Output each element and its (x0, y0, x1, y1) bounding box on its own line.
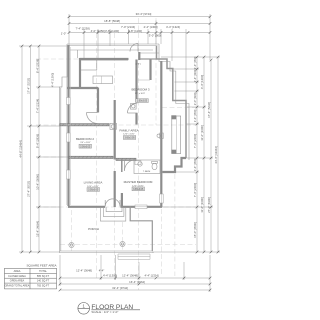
svg-text:3'-8" [1100]: 3'-8" [1100] (105, 29, 119, 33)
svg-text:1'-4" [400]: 1'-4" [400] (193, 69, 197, 82)
svg-text:7'-4" [2134]: 7'-4" [2134] (35, 99, 39, 113)
svg-text:10'-4" [3096]: 10'-4" [3096] (35, 174, 39, 190)
svg-text:7'-4" [2200]: 7'-4" [2200] (193, 134, 197, 148)
svg-text:17'-4" [5232]: 17'-4" [5232] (27, 78, 31, 94)
svg-text:12'0" x 10'0": 12'0" x 10'0" (123, 134, 135, 136)
svg-text:4'-4" [1300]: 4'-4" [1300] (51, 73, 55, 87)
svg-text:32'-4" [9744]: 32'-4" [9744] (112, 286, 128, 290)
svg-text:18'-8" [5648]: 18'-8" [5648] (104, 19, 120, 23)
svg-text:44'-8" [13464]: 44'-8" [13464] (19, 140, 23, 157)
svg-text:3'-0" [900]: 3'-0" [900] (149, 34, 162, 38)
svg-text:11'-6" [3300]: 11'-6" [3300] (200, 125, 204, 141)
svg-text:OPEN AREA: OPEN AREA (10, 280, 25, 283)
svg-text:9'0" x 10'0": 9'0" x 10'0" (80, 142, 91, 144)
svg-text:1'-6" [450]: 1'-6" [450] (193, 109, 197, 122)
svg-text:15'-0" [4500]: 15'-0" [4500] (193, 222, 197, 238)
svg-text:4'-4" [1300]: 4'-4" [1300] (200, 75, 204, 89)
svg-text:30'-4" [9744]: 30'-4" [9744] (136, 12, 152, 16)
svg-text:AREA: AREA (14, 270, 21, 273)
svg-text:27'-0" [8100]: 27'-0" [8100] (207, 197, 211, 213)
svg-text:4'-4" [1324]: 4'-4" [1324] (144, 274, 158, 278)
svg-text:BEDROOM 3: BEDROOM 3 (131, 87, 149, 91)
svg-text:1'-6" [450]: 1'-6" [450] (193, 56, 197, 69)
svg-text:(2'6"): (2'6") (136, 63, 141, 65)
svg-text:9'-4" [2836]: 9'-4" [2836] (35, 134, 39, 148)
svg-text:3.00x3.05: 3.00x3.05 (137, 101, 148, 103)
svg-text:17'-4" [5232]: 17'-4" [5232] (207, 102, 211, 118)
svg-text:9'0" x 10'0": 9'0" x 10'0" (135, 93, 146, 95)
svg-text:27'-4" [8232]: 27'-4" [8232] (27, 181, 31, 197)
svg-text:SCALE : 1/4" = 1'-0": SCALE : 1/4" = 1'-0" (91, 310, 118, 314)
svg-text:12'-4" [3648]: 12'-4" [3648] (76, 269, 92, 273)
svg-text:140 SQ.FT: 140 SQ.FT (37, 280, 50, 283)
svg-text:44'-4" [13364]: 44'-4" [13364] (214, 146, 218, 163)
svg-text:4'-0" [1350]: 4'-0" [1350] (91, 29, 105, 33)
svg-text:4'-4" [1324]: 4'-4" [1324] (166, 25, 180, 29)
svg-text:1'-6" [450]: 1'-6" [450] (193, 158, 197, 171)
svg-text:T. BATH: T. BATH (143, 170, 151, 173)
svg-text:SQUARE FEET AREA: SQUARE FEET AREA (27, 264, 57, 268)
svg-text:8'-4" [2538]: 8'-4" [2538] (35, 59, 39, 73)
svg-text:4'-4": 4'-4" (99, 269, 105, 273)
svg-text:PORCH: PORCH (88, 227, 99, 231)
svg-text:CLOSED AREA: CLOSED AREA (8, 275, 26, 278)
svg-text:3.65x3.05: 3.65x3.05 (124, 138, 135, 140)
svg-text:12'-4" [3648]: 12'-4" [3648] (122, 274, 138, 278)
svg-text:3.65x3.05: 3.65x3.05 (133, 189, 144, 191)
svg-text:15'-4" [4664]: 15'-4" [4664] (35, 221, 39, 237)
svg-text:4'-4" [1300]: 4'-4" [1300] (143, 25, 157, 29)
svg-text:LIVING AREA: LIVING AREA (84, 181, 103, 185)
svg-text:765 SQ.FT: 765 SQ.FT (37, 285, 50, 288)
svg-text:585 SQ.FT: 585 SQ.FT (37, 275, 50, 278)
svg-text:TOTAL: TOTAL (39, 270, 47, 273)
svg-text:7'-4" [2200]: 7'-4" [2200] (193, 183, 197, 197)
svg-text:4'-4" [1300]: 4'-4" [1300] (103, 274, 117, 278)
svg-text:3.00x3.05: 3.00x3.05 (80, 146, 91, 148)
svg-text:FAMILY AREA: FAMILY AREA (119, 128, 138, 132)
svg-text:16'-4" [4964]: 16'-4" [4964] (129, 280, 145, 284)
svg-text:11'-6" [3300]: 11'-6" [3300] (200, 197, 204, 213)
svg-text:2'-0" [600]: 2'-0" [600] (193, 92, 197, 105)
svg-text:3'-8" [1100]: 3'-8" [1100] (128, 29, 142, 33)
svg-text:BEDROOM 2: BEDROOM 2 (76, 137, 94, 141)
svg-text:MASTER BEDROOM: MASTER BEDROOM (124, 180, 153, 184)
svg-text:GRAND TOTAL AREA: GRAND TOTAL AREA (5, 285, 30, 288)
svg-text:1'-0": 1'-0" (61, 31, 67, 35)
svg-text:7'-4" [2238]: 7'-4" [2238] (75, 26, 89, 30)
svg-text:3.05x3.65: 3.05x3.65 (88, 190, 99, 192)
